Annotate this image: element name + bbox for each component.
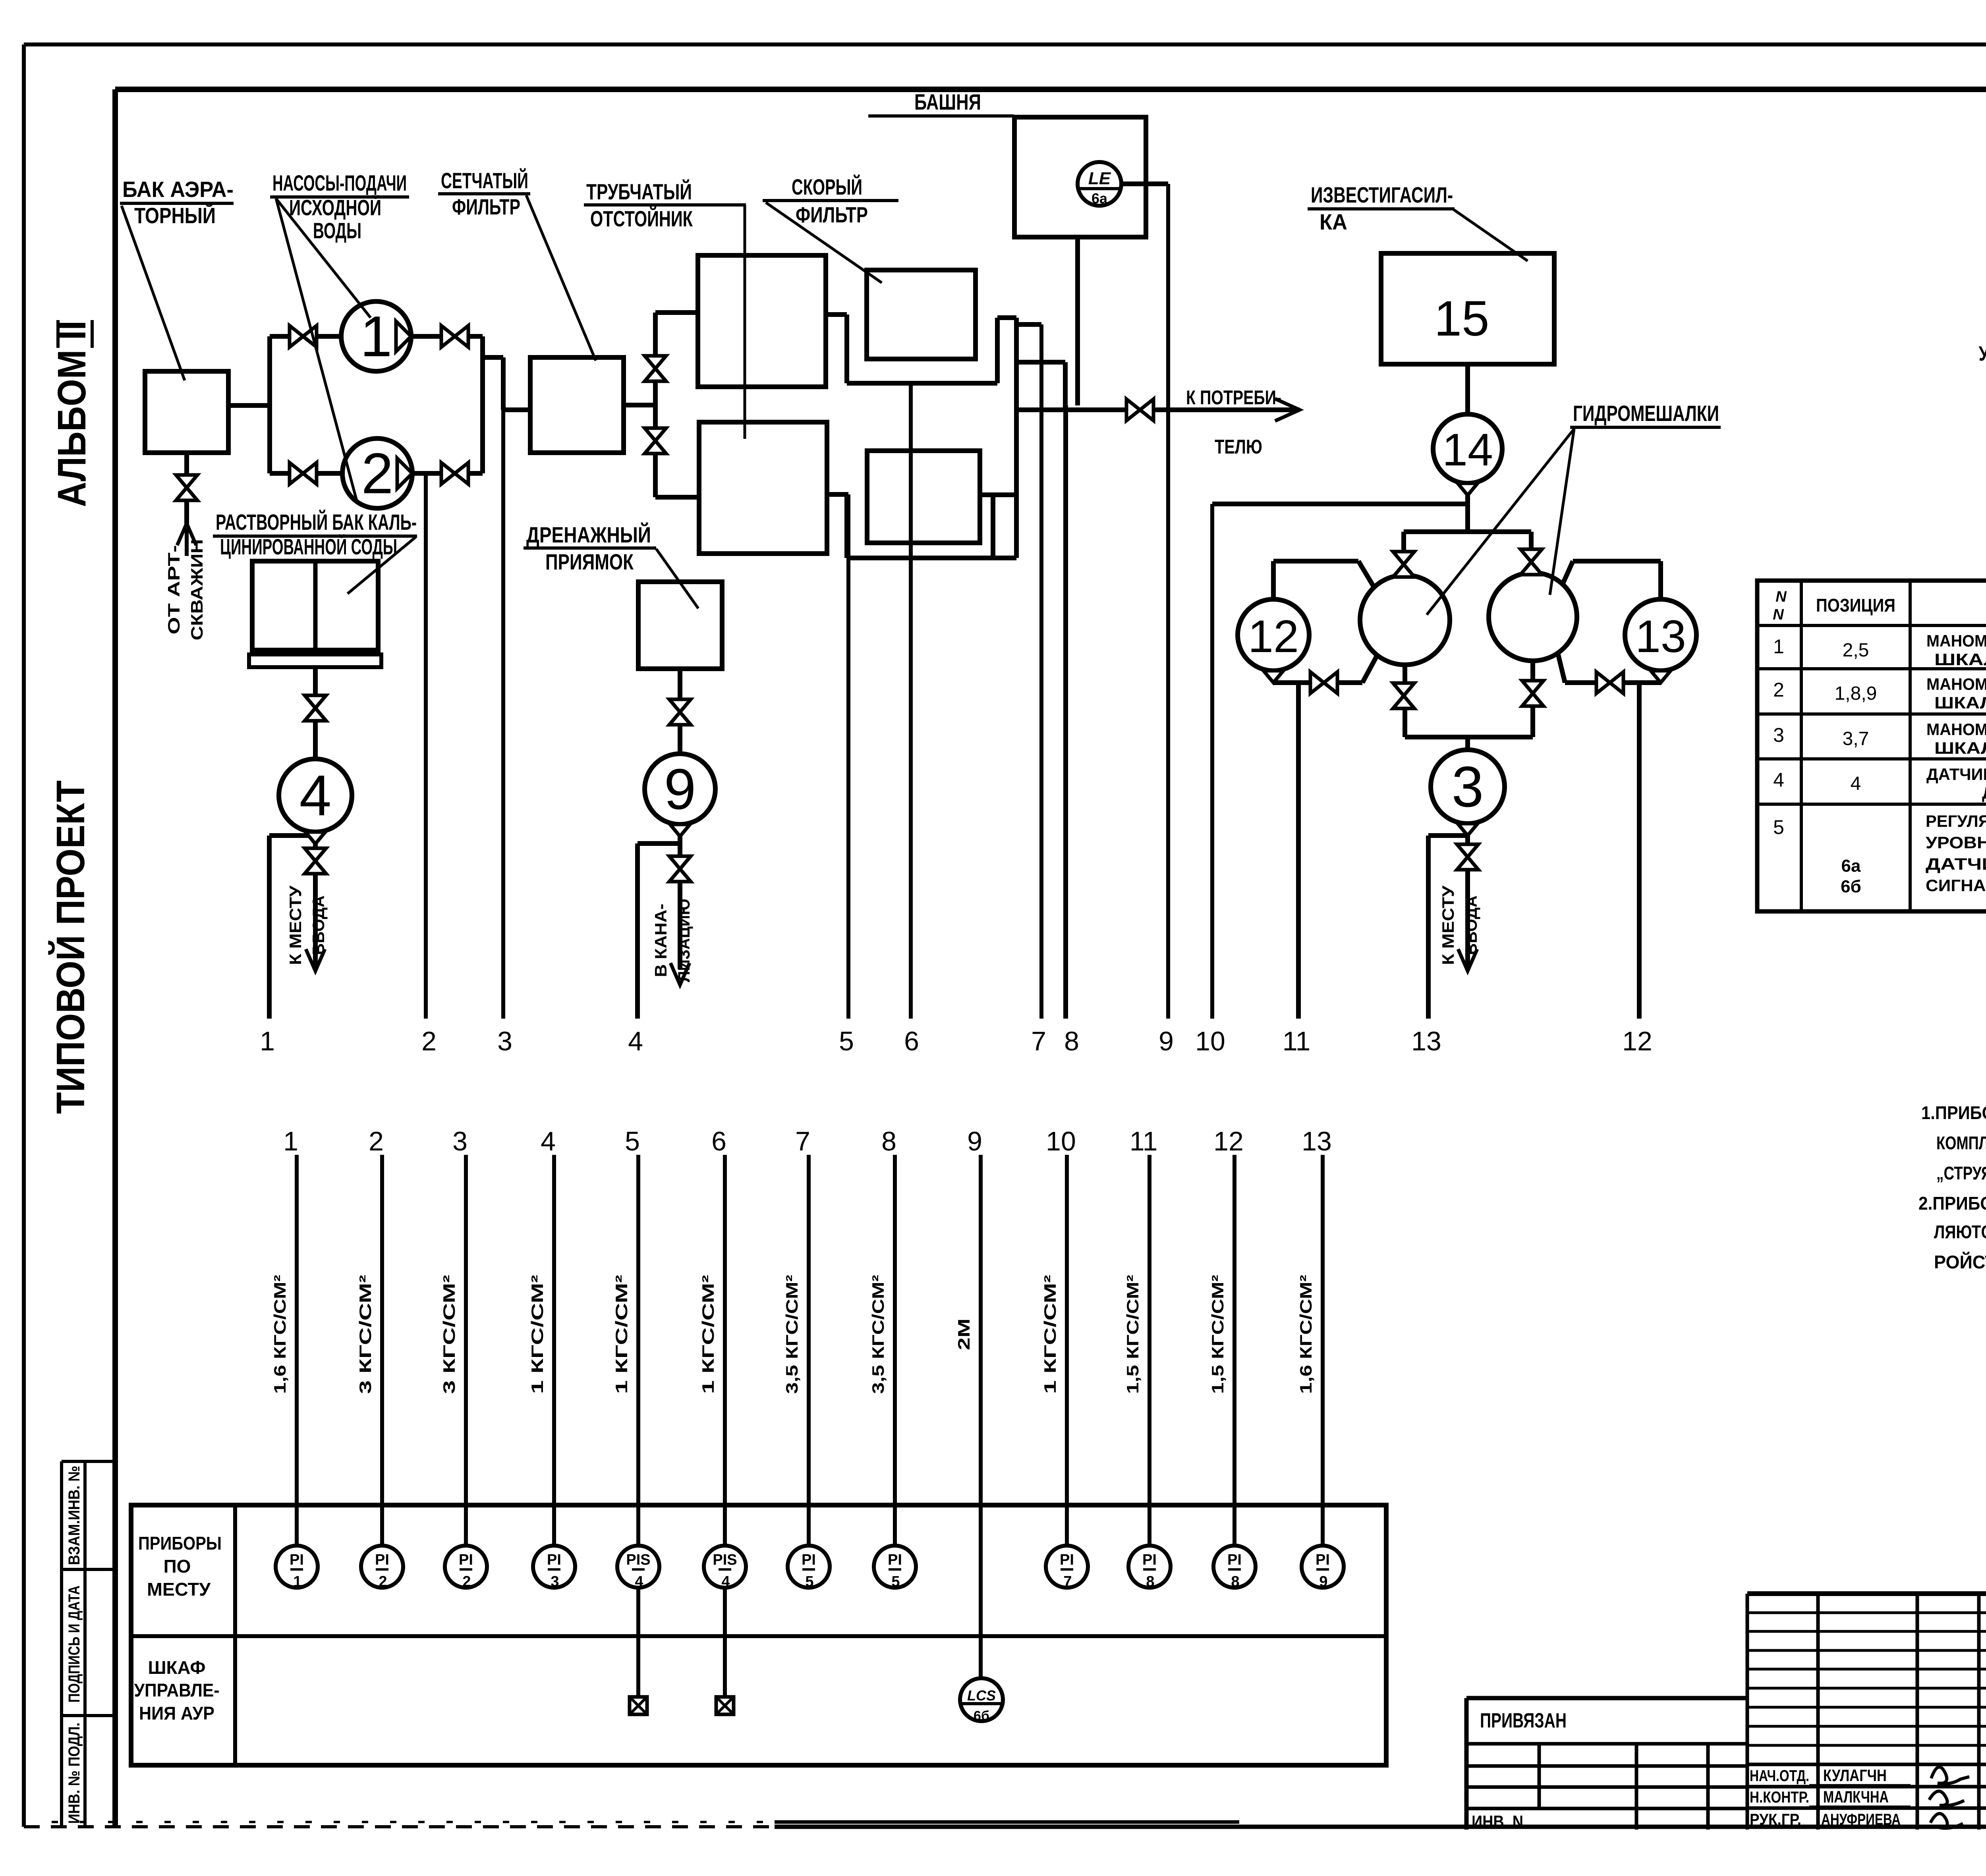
svg-text:РАСТВОРНЫЙ БАК КАЛЬ-: РАСТВОРНЫЙ БАК КАЛЬ- bbox=[216, 510, 417, 535]
svg-text:ИЗВЕСТИГАСИЛ-: ИЗВЕСТИГАСИЛ- bbox=[1311, 182, 1453, 207]
svg-text:6б: 6б bbox=[974, 1708, 989, 1724]
svg-text:МЕСТУ: МЕСТУ bbox=[147, 1579, 211, 1600]
svg-text:СКОРЫЙ: СКОРЫЙ bbox=[792, 174, 862, 199]
svg-text:ОТ АРТ-: ОТ АРТ- bbox=[164, 545, 183, 635]
svg-text:УСЛОВНЫЕ ОБОЗНАЧЕНИЯ ПРИБОРОВ: УСЛОВНЫЕ ОБОЗНАЧЕНИЯ ПРИБОРОВ bbox=[1979, 342, 1986, 365]
svg-text:5: 5 bbox=[891, 1573, 900, 1590]
svg-text:2: 2 bbox=[379, 1573, 387, 1590]
svg-text:ФИЛЬТР: ФИЛЬТР bbox=[796, 202, 868, 227]
svg-text:6: 6 bbox=[711, 1126, 726, 1156]
svg-text:СЕТЧАТЫЙ: СЕТЧАТЫЙ bbox=[441, 168, 528, 193]
svg-text:1,8,9: 1,8,9 bbox=[1835, 683, 1877, 704]
svg-text:9: 9 bbox=[1159, 1026, 1174, 1056]
svg-text:1: 1 bbox=[360, 304, 392, 369]
svg-text:К МЕСТУ: К МЕСТУ bbox=[286, 885, 305, 965]
svg-text:LE: LE bbox=[1088, 169, 1111, 188]
svg-text:ТРУБЧАТЫЙ: ТРУБЧАТЫЙ bbox=[586, 179, 692, 204]
svg-text:4: 4 bbox=[628, 1026, 643, 1056]
svg-text:12: 12 bbox=[1248, 611, 1299, 662]
svg-text:ШКАФ: ШКАФ bbox=[148, 1657, 206, 1678]
svg-text:РУК.ГР.: РУК.ГР. bbox=[1750, 1811, 1801, 1828]
svg-text:4: 4 bbox=[1851, 773, 1861, 794]
svg-text:ИНВ. N: ИНВ. N bbox=[1472, 1812, 1523, 1832]
svg-text:ВВОДА: ВВОДА bbox=[1462, 896, 1480, 955]
svg-text:ЦИНИРОВАННОЙ СОДЫ: ЦИНИРОВАННОЙ СОДЫ bbox=[220, 534, 397, 559]
svg-text:2М: 2М bbox=[954, 1318, 973, 1350]
svg-text:PI: PI bbox=[459, 1552, 473, 1568]
svg-text:N: N bbox=[1773, 606, 1784, 623]
svg-text:3 КГС/СМ²: 3 КГС/СМ² bbox=[356, 1275, 375, 1394]
svg-text:РЕГУЛЯТОР- СИГНАЛИЗАТОР: РЕГУЛЯТОР- СИГНАЛИЗАТОР bbox=[1926, 812, 1986, 830]
svg-text:12: 12 bbox=[1622, 1026, 1652, 1056]
svg-text:3: 3 bbox=[1773, 724, 1784, 746]
svg-text:ШКАЛА 0-4КГС/СМ²: ШКАЛА 0-4КГС/СМ² bbox=[1934, 650, 1986, 669]
svg-text:2: 2 bbox=[1773, 679, 1784, 701]
svg-text:13: 13 bbox=[1302, 1126, 1332, 1156]
svg-text:PIS: PIS bbox=[626, 1552, 650, 1568]
svg-text:11: 11 bbox=[1283, 1026, 1311, 1056]
svg-text:2: 2 bbox=[369, 1126, 384, 1156]
svg-text:„СТРУЯ ”: „СТРУЯ ” bbox=[1936, 1163, 1986, 1183]
svg-text:МАНОМЕТР ТЕХНИЧЕСКИЙ,: МАНОМЕТР ТЕХНИЧЕСКИЙ, bbox=[1926, 674, 1986, 693]
svg-text:НАЧ.ОТД.: НАЧ.ОТД. bbox=[1750, 1767, 1809, 1785]
svg-text:10: 10 bbox=[1195, 1026, 1225, 1056]
svg-text:13: 13 bbox=[1411, 1026, 1441, 1056]
svg-text:2: 2 bbox=[462, 1573, 471, 1590]
svg-text:12: 12 bbox=[1213, 1126, 1244, 1156]
svg-text:9: 9 bbox=[664, 757, 696, 821]
svg-text:МАНОМЕТР ТЕХНИЧЕСКИЙ: МАНОМЕТР ТЕХНИЧЕСКИЙ bbox=[1926, 631, 1986, 650]
svg-text:ИСХОДНОЙ: ИСХОДНОЙ bbox=[289, 195, 381, 220]
svg-text:Н.КОНТР.: Н.КОНТР. bbox=[1750, 1789, 1809, 1806]
svg-text:ВВОДА: ВВОДА bbox=[309, 896, 328, 955]
svg-text:3,7: 3,7 bbox=[1843, 728, 1869, 749]
svg-text:7: 7 bbox=[795, 1126, 810, 1156]
svg-text:ПРИБОРЫ: ПРИБОРЫ bbox=[138, 1533, 222, 1554]
svg-text:6: 6 bbox=[904, 1026, 919, 1056]
svg-text:4: 4 bbox=[721, 1573, 730, 1590]
svg-text:N: N bbox=[1775, 589, 1787, 605]
svg-text:ДАВЛЕНИЯ: ДАВЛЕНИЯ bbox=[1982, 784, 1986, 802]
svg-text:ДАТЧИКИ ℓ= 0.6М: ДАТЧИКИ ℓ= 0.6М bbox=[1926, 855, 1986, 873]
svg-text:13: 13 bbox=[1635, 611, 1686, 662]
svg-text:8: 8 bbox=[881, 1126, 896, 1156]
svg-text:БАК АЭРА-: БАК АЭРА- bbox=[122, 177, 234, 202]
svg-text:ЛЯЮТСЯ КОМПЛЕКТНО С УСТ-: ЛЯЮТСЯ КОМПЛЕКТНО С УСТ- bbox=[1934, 1222, 1986, 1242]
svg-text:ШКАЛА 0-1.6 КГС/СМ²: ШКАЛА 0-1.6 КГС/СМ² bbox=[1934, 739, 1986, 757]
svg-text:ГИДРОМЕШАЛКИ: ГИДРОМЕШАЛКИ bbox=[1573, 401, 1719, 426]
svg-text:КА: КА bbox=[1319, 209, 1347, 234]
svg-text:PIS: PIS bbox=[713, 1552, 737, 1568]
svg-text:1 КГС/СМ²: 1 КГС/СМ² bbox=[699, 1275, 717, 1394]
svg-text:PI: PI bbox=[290, 1552, 304, 1568]
svg-text:PI: PI bbox=[1060, 1552, 1074, 1568]
svg-text:К ПОТРЕБИ-: К ПОТРЕБИ- bbox=[1186, 386, 1281, 409]
svg-text:ИНВ. № ПОДЛ.: ИНВ. № ПОДЛ. bbox=[66, 1723, 83, 1824]
svg-text:7: 7 bbox=[1063, 1573, 1072, 1590]
svg-text:7: 7 bbox=[1031, 1026, 1046, 1056]
svg-text:2: 2 bbox=[361, 441, 394, 506]
svg-text:НИЯ АУР: НИЯ АУР bbox=[139, 1703, 214, 1724]
svg-text:9: 9 bbox=[967, 1126, 982, 1156]
svg-text:ФИЛЬТР: ФИЛЬТР bbox=[452, 194, 520, 219]
svg-text:1,6 КГС/СМ²: 1,6 КГС/СМ² bbox=[270, 1275, 289, 1394]
svg-text:ПО: ПО bbox=[164, 1556, 191, 1577]
svg-text:2: 2 bbox=[421, 1026, 437, 1056]
svg-text:БАШНЯ: БАШНЯ bbox=[914, 89, 981, 114]
svg-text:8: 8 bbox=[1231, 1573, 1239, 1590]
svg-text:4: 4 bbox=[541, 1126, 556, 1156]
svg-text:1: 1 bbox=[293, 1573, 301, 1590]
svg-text:PI: PI bbox=[888, 1552, 902, 1568]
svg-text:КОМПЛЕКТНО С УСТАНОВКОЙ: КОМПЛЕКТНО С УСТАНОВКОЙ bbox=[1936, 1133, 1986, 1153]
svg-text:2,5: 2,5 bbox=[1843, 640, 1869, 661]
svg-text:1,6 КГС/СМ²: 1,6 КГС/СМ² bbox=[1296, 1275, 1315, 1394]
svg-text:6а: 6а bbox=[1092, 190, 1108, 207]
svg-text:PI: PI bbox=[802, 1552, 816, 1568]
svg-text:ЛИЗАЦИЮ: ЛИЗАЦИЮ bbox=[674, 899, 693, 982]
svg-text:6б: 6б bbox=[1841, 877, 1861, 896]
svg-text:К МЕСТУ: К МЕСТУ bbox=[1439, 885, 1457, 965]
svg-text:ПОЗИЦИЯ: ПОЗИЦИЯ bbox=[1816, 595, 1895, 616]
svg-text:2.ПРИБОРЫ ПОЗ.4 И ПОЗ.6 ПОСТ: 2.ПРИБОРЫ ПОЗ.4 И ПОЗ.6 ПОСТАВ- bbox=[1918, 1193, 1986, 1214]
svg-text:ВОДЫ: ВОДЫ bbox=[313, 218, 361, 243]
svg-text:1: 1 bbox=[283, 1126, 298, 1156]
svg-text:ДАТЧИК- РЕЛЕ РАЗНОСТИ: ДАТЧИК- РЕЛЕ РАЗНОСТИ bbox=[1926, 765, 1986, 784]
svg-text:4: 4 bbox=[1773, 769, 1784, 791]
svg-text:14: 14 bbox=[1442, 425, 1493, 475]
svg-text:11: 11 bbox=[1130, 1126, 1158, 1156]
svg-text:ДРЕНАЖНЫЙ: ДРЕНАЖНЫЙ bbox=[526, 522, 651, 547]
svg-text:РОЙСТВОМ АУР: РОЙСТВОМ АУР bbox=[1934, 1252, 1986, 1272]
svg-text:LCS: LCS bbox=[967, 1687, 996, 1704]
svg-text:PI: PI bbox=[547, 1552, 561, 1568]
svg-text:1: 1 bbox=[260, 1026, 275, 1056]
svg-text:АНУФРИЕВА: АНУФРИЕВА bbox=[1821, 1811, 1901, 1828]
svg-text:ТОРНЫЙ: ТОРНЫЙ bbox=[134, 203, 216, 228]
svg-text:1,5 КГС/СМ²: 1,5 КГС/СМ² bbox=[1208, 1275, 1227, 1394]
svg-text:МАЛКЧНА: МАЛКЧНА bbox=[1823, 1787, 1889, 1806]
svg-text:УПРАВЛЕ-: УПРАВЛЕ- bbox=[134, 1680, 220, 1700]
svg-text:3: 3 bbox=[551, 1573, 559, 1590]
svg-text:4: 4 bbox=[635, 1573, 643, 1590]
svg-text:В КАНА-: В КАНА- bbox=[651, 904, 670, 977]
svg-text:3: 3 bbox=[452, 1126, 468, 1156]
svg-text:3,5 КГС/СМ²: 3,5 КГС/СМ² bbox=[869, 1275, 887, 1394]
svg-text:3: 3 bbox=[1452, 755, 1484, 819]
svg-text:5: 5 bbox=[805, 1573, 813, 1590]
svg-text:ТИПОВОЙ ПРОЕКТ: ТИПОВОЙ ПРОЕКТ bbox=[48, 780, 93, 1114]
svg-text:ОТСТОЙНИК: ОТСТОЙНИК bbox=[590, 206, 693, 231]
svg-text:5: 5 bbox=[625, 1126, 640, 1156]
svg-text:PI: PI bbox=[1316, 1552, 1330, 1568]
svg-text:10: 10 bbox=[1046, 1126, 1076, 1156]
svg-text:6а: 6а bbox=[1841, 856, 1861, 876]
svg-text:1,5 КГС/СМ²: 1,5 КГС/СМ² bbox=[1123, 1275, 1142, 1394]
svg-text:PI: PI bbox=[375, 1552, 389, 1568]
svg-text:9: 9 bbox=[1319, 1573, 1327, 1590]
svg-text:КУЛАГЧН: КУЛАГЧН bbox=[1823, 1766, 1887, 1785]
svg-text:ШКАЛА 0-2,5 КГС/СМ²: ШКАЛА 0-2,5 КГС/СМ² bbox=[1934, 693, 1986, 712]
svg-text:МАНОМЕТР ТЕХНИЧЕСКИЙ,: МАНОМЕТР ТЕХНИЧЕСКИЙ, bbox=[1926, 720, 1986, 739]
svg-text:1 КГС/СМ²: 1 КГС/СМ² bbox=[1041, 1275, 1059, 1394]
svg-text:ПРИЯМОК: ПРИЯМОК bbox=[545, 549, 634, 574]
svg-text:5: 5 bbox=[1773, 816, 1784, 838]
svg-text:8: 8 bbox=[1064, 1026, 1079, 1056]
svg-text:3,5 КГС/СМ²: 3,5 КГС/СМ² bbox=[782, 1275, 801, 1394]
svg-text:СКВАЖИН: СКВАЖИН bbox=[187, 539, 206, 641]
svg-text:ПОДПИСЬ И ДАТА: ПОДПИСЬ И ДАТА bbox=[66, 1586, 83, 1703]
svg-text:1.ПРИБОРЫ ПОЗ.5 ПОСТАВЛЯЕТСЯ: 1.ПРИБОРЫ ПОЗ.5 ПОСТАВЛЯЕТСЯ bbox=[1921, 1102, 1986, 1123]
svg-text:УРОВНЯ В КОМПЛЕКТЕ:: УРОВНЯ В КОМПЛЕКТЕ: bbox=[1926, 833, 1986, 852]
svg-text:PI: PI bbox=[1142, 1552, 1157, 1568]
svg-text:1: 1 bbox=[1773, 635, 1784, 658]
svg-text:ТЕЛЮ: ТЕЛЮ bbox=[1215, 436, 1262, 458]
svg-text:4: 4 bbox=[299, 763, 332, 828]
svg-text:8: 8 bbox=[1146, 1573, 1154, 1590]
svg-text:АЛЬБОМ II: АЛЬБОМ II bbox=[50, 320, 94, 507]
svg-text:1 КГС/СМ²: 1 КГС/СМ² bbox=[612, 1275, 631, 1394]
svg-text:НАСОСЫ-ПОДАЧИ: НАСОСЫ-ПОДАЧИ bbox=[272, 170, 407, 195]
svg-text:3 КГС/СМ²: 3 КГС/СМ² bbox=[440, 1275, 458, 1394]
svg-text:СИГНАЛЬНЫЙ БЛОК: СИГНАЛЬНЫЙ БЛОК bbox=[1926, 876, 1986, 895]
svg-text:5: 5 bbox=[839, 1026, 854, 1056]
svg-text:3: 3 bbox=[497, 1026, 512, 1056]
svg-text:ПРИВЯЗАН: ПРИВЯЗАН bbox=[1480, 1709, 1567, 1732]
svg-text:PI: PI bbox=[1227, 1552, 1242, 1568]
svg-text:ВЗАМ.ИНВ. №: ВЗАМ.ИНВ. № bbox=[66, 1466, 83, 1565]
svg-text:15: 15 bbox=[1434, 291, 1489, 346]
svg-text:1 КГС/СМ²: 1 КГС/СМ² bbox=[528, 1275, 547, 1394]
